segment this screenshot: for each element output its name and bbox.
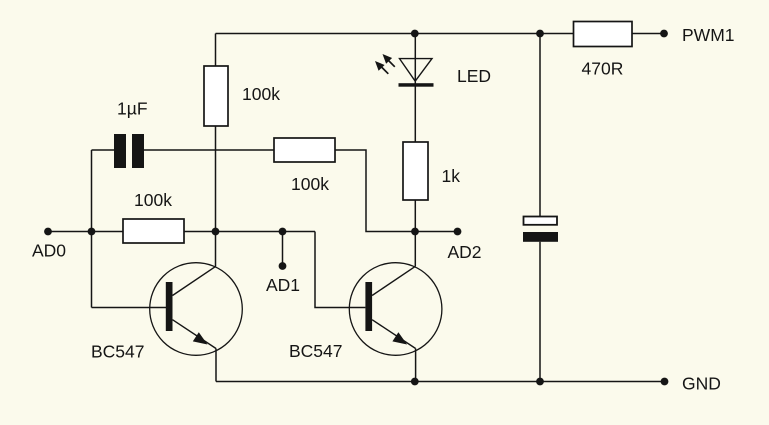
- LED triangle: [400, 59, 433, 82]
- transistor Q1 collector diagonal: [173, 266, 217, 295]
- transistor Q2 emitter diagonal: [372, 320, 416, 349]
- wire: cap left lead: [92, 149, 115, 151]
- terminal PWM1: [660, 30, 668, 38]
- resistor 100k (top vertical): [204, 66, 228, 126]
- wire: cap right lead to middle 100k: [144, 149, 274, 151]
- svg-text:1µF: 1µF: [117, 99, 148, 119]
- svg-text:AD0: AD0: [32, 241, 66, 261]
- svg-text:100k: 100k: [134, 190, 172, 210]
- svg-text:AD1: AD1: [266, 275, 300, 295]
- wire: electrolytic cap to ground rail: [539, 242, 541, 382]
- svg-text:BC547: BC547: [91, 342, 145, 362]
- capacitor 1uF (right plate): [132, 134, 144, 168]
- transistor Q2 base bar: [365, 282, 372, 331]
- node: junction AD0 row / Q1 collector: [212, 228, 220, 236]
- wire: ground rail: [216, 381, 665, 383]
- node: AD2 / Q2 collector junction: [411, 228, 419, 236]
- wire: vertical from top rail through R collector line Q1: [215, 34, 217, 67]
- resistor 470R: [574, 22, 633, 47]
- svg-text:AD2: AD2: [448, 242, 482, 262]
- LED emission arrow 1: [383, 54, 395, 67]
- wire: 470R to PWM1 terminal: [632, 33, 664, 35]
- resistor 1k: [403, 142, 428, 200]
- capacitor 1uF (left plate): [114, 134, 126, 168]
- svg-text:100k: 100k: [291, 174, 329, 194]
- svg-text:100k: 100k: [242, 84, 280, 104]
- wire: AD0 to lower 100k: [48, 231, 123, 233]
- node: junction AD1 tap: [279, 228, 287, 236]
- terminal GND: [661, 378, 669, 386]
- svg-text:LED: LED: [457, 66, 491, 86]
- transistor Q2 collector diagonal: [372, 266, 416, 295]
- wire: top supply rail: [216, 33, 574, 35]
- transistor Q2 BC547 circle: [349, 263, 442, 356]
- transistor Q1 emitter diagonal: [173, 320, 217, 349]
- capacitor electrolytic bottom plate: [523, 232, 558, 242]
- node: Q2 emitter on ground rail: [411, 378, 419, 386]
- node: cap branch on ground rail: [536, 378, 544, 386]
- wire: 1k bottom to AD2 node and Q2 collector: [414, 200, 416, 266]
- wire: Q2 emitter to ground rail: [415, 349, 417, 382]
- wire: AD1 stub: [282, 232, 284, 267]
- svg-text:GND: GND: [682, 374, 721, 394]
- wire: Q1 base lead: [92, 307, 167, 309]
- svg-text:1k: 1k: [442, 166, 461, 186]
- terminal AD2: [454, 228, 462, 236]
- node: junction AD0 row / cap branch: [88, 228, 96, 236]
- wire: middle 100k right lead going down to AD2 node: [335, 150, 415, 232]
- resistor 100k (middle horizontal): [274, 138, 335, 162]
- terminal AD0: [44, 228, 52, 236]
- wire: left vertical from cap lead down to Q1 base row: [91, 150, 93, 308]
- wire: top rail down to electrolytic cap: [539, 34, 541, 217]
- resistor 100k (lower horizontal): [123, 219, 184, 243]
- node: LED branch on top rail: [411, 30, 419, 38]
- wire: Q2 collector / 1k / LED vertical: [414, 34, 416, 143]
- capacitor electrolytic top plate: [524, 217, 558, 225]
- LED emission arrow 2: [375, 61, 388, 74]
- transistor Q1 BC547 circle: [150, 263, 243, 356]
- wire: drop to Q2 base row: [315, 232, 365, 308]
- terminal AD1: [279, 262, 287, 270]
- node: cap branch on top rail: [536, 30, 544, 38]
- transistor Q2 emitter arrow: [392, 332, 407, 344]
- transistor Q1 base bar: [166, 282, 173, 331]
- wire: AD2 stub: [415, 231, 458, 233]
- LED cathode bar: [399, 83, 434, 87]
- wire: lower 100k right lead across to Q2 base drop: [184, 231, 315, 233]
- svg-text:BC547: BC547: [289, 341, 343, 361]
- wire: Q1 emitter to ground rail: [215, 349, 217, 382]
- transistor Q1 emitter arrow: [193, 332, 208, 344]
- svg-text:470R: 470R: [582, 59, 624, 79]
- wire: R100k bottom to Q1 collector, crossing cap wire: [215, 126, 217, 266]
- svg-text:PWM1: PWM1: [682, 25, 735, 45]
